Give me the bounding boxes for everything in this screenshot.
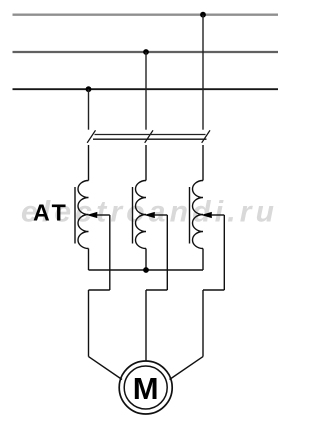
wire coil 2 tap jog [146,289,167,291]
switch QS linkage bar upper line [95,134,206,136]
autotransformer coil 1 winding [78,181,89,249]
switch QS linkage bar lower line [93,138,207,140]
switch QS blade pole 1 [87,130,95,143]
svg-text:M: M [133,371,159,406]
autotransformer coil 1 core [74,187,76,244]
wire motor lead 3 diagonal [170,357,204,380]
phase line L2 [13,51,279,53]
wire coil 3 tap drop [223,215,225,290]
wire L1 tap down to switch pole 3 [202,15,204,130]
autotransformer coil 1 tap arrow [87,212,98,218]
wire motor lead 1 vertical [88,290,90,357]
wire coil 1 bottom to star bus [88,249,90,271]
phase line L3 [13,88,279,90]
wire L3 tap down to switch pole 1 [88,89,90,130]
wire coil 3 tap arrow to tap drop [211,214,224,216]
autotransformer coil 3 winding [193,181,204,249]
autotransformer coil 2 core [132,187,134,244]
wire L2 tap down to switch pole 2 [145,52,147,130]
wire coil 3 tap jog [203,289,224,291]
svg-text:AT: AT [33,199,69,225]
wire motor lead 2 vertical [145,290,147,361]
autotransformer coil 2 tap arrow [144,212,155,218]
switch QS blade pole 2 [145,130,153,143]
wire coil 2 tap drop [166,215,168,290]
wire switch pole 1 to coil 1 [88,145,90,181]
star point bus wire [89,269,204,271]
wire motor lead 3 vertical [202,290,204,357]
phase line L1 [13,13,279,15]
wire motor lead 1 diagonal [89,357,123,380]
junction node on L2 [143,49,149,55]
wire coil 3 bottom to star bus [202,249,204,271]
junction node on L3 [86,86,92,92]
wire coil 1 tap jog [89,289,110,291]
motor M outer circle [119,361,172,414]
wire switch pole 3 to coil 3 [202,145,204,181]
motor M inner circle [124,366,167,409]
wire coil 2 bottom to star bus [145,249,147,271]
autotransformer coil 3 core [189,187,191,244]
switch QS blade pole 3 [202,130,210,143]
autotransformer coil 2 winding [136,181,147,249]
wire coil 2 tap arrow to tap drop [154,214,167,216]
wire switch pole 2 to coil 2 [145,145,147,181]
wire coil 1 tap drop [109,215,111,290]
junction node on L1 [200,12,206,18]
star point junction node [143,267,149,273]
wire coil 1 tap arrow to tap drop [97,214,110,216]
autotransformer coil 3 tap arrow [201,212,212,218]
